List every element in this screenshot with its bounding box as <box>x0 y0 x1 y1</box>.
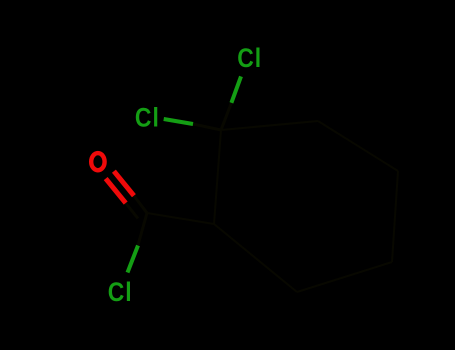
svg-text:Cl: Cl <box>237 43 262 73</box>
wire ring bond C2-C3 <box>221 121 318 130</box>
svg-text:Cl: Cl <box>108 277 133 307</box>
wire acyl C-Cl dark half <box>138 213 147 245</box>
wire ring bond C3-C4 <box>318 121 398 171</box>
wire C2-Cl top dark half <box>221 103 231 130</box>
bond C2 to top Cl (green half) <box>231 76 241 102</box>
bond C2 to left Cl (green half) <box>164 119 193 124</box>
bond acyl C to Cl (green half) <box>128 246 139 273</box>
atom label O (carbonyl oxygen) <box>91 153 104 170</box>
wire ring bond C5-C6 <box>297 262 392 292</box>
wire bond C1 to carbonyl carbon <box>147 213 214 224</box>
wire ring bond C6-C1 <box>214 224 297 292</box>
wire ring bond C1-C2 <box>214 130 221 224</box>
double bond C=O red half line 1 <box>114 171 134 196</box>
wire C2-Cl left dark half <box>193 124 221 130</box>
svg-text:Cl: Cl <box>135 103 160 133</box>
double bond C=O red half line 2 <box>106 179 126 204</box>
wire carbonyl C=O dark half line 2 <box>126 203 138 218</box>
cyclohexane ring C1-C6 (dark skeleton) <box>126 103 398 292</box>
wire carbonyl C=O dark half line 1 <box>134 196 147 213</box>
wire ring bond C4-C5 <box>392 171 398 262</box>
